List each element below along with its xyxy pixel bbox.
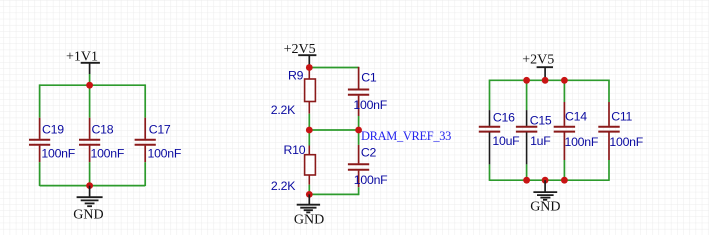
svg-text:GND: GND [294, 213, 324, 228]
junction bottom rail GND [542, 177, 549, 184]
junction top rail at C18 [86, 82, 93, 89]
ground GND right bars [533, 192, 557, 200]
svg-text:10uF: 10uF [492, 134, 520, 148]
wire bottom rail right group [490, 179, 610, 181]
power port +2V5 bar (right) [537, 66, 553, 68]
capacitor C18 [79, 118, 100, 163]
svg-text:C18: C18 [92, 123, 114, 137]
svg-text:100nF: 100nF [354, 173, 388, 187]
capacitor C2 [348, 145, 369, 187]
junction bottom rail C15 [523, 177, 530, 184]
wire C2 bottom to node3 [358, 187, 360, 195]
wire C14 bottom [563, 160, 565, 180]
svg-text:C2: C2 [361, 145, 377, 159]
wire C11 top [608, 80, 610, 103]
svg-text:100nF: 100nF [565, 135, 599, 149]
svg-text:C1: C1 [361, 71, 377, 85]
power port +2V5 bar (middle) [298, 54, 316, 56]
wire C19 bottom [39, 162, 41, 186]
ground GND left bars [77, 197, 103, 206]
svg-text:100nF: 100nF [91, 146, 125, 160]
wire C17 bottom [144, 162, 146, 186]
power port +2V5 stem (right) [544, 67, 546, 77]
svg-text:C11: C11 [611, 110, 632, 124]
wire R10 bottom to node3 [308, 185, 310, 195]
wire bottom rail left group [40, 185, 146, 187]
svg-text:GND: GND [73, 207, 103, 222]
wire top rail +2V5 [490, 79, 610, 81]
wire C15 top [526, 80, 528, 110]
ground GND middle stem [308, 194, 310, 204]
junction bottom rail C14 [561, 177, 568, 184]
svg-text:1uF: 1uF [530, 134, 551, 148]
capacitor C14 [554, 102, 575, 160]
capacitor C15 (black pins) [516, 110, 537, 164]
junction top rail power [542, 77, 549, 84]
wire C14 top [563, 80, 565, 102]
svg-text:100nF: 100nF [41, 146, 75, 160]
junction node3 [306, 191, 313, 198]
wire C1 bottom to node2 [358, 116, 360, 130]
svg-text:C16: C16 [493, 111, 515, 125]
capacitor C1 [348, 67, 369, 116]
svg-text:C17: C17 [149, 123, 171, 137]
junction node2 right [355, 127, 362, 134]
wire node2 horizontal [309, 129, 358, 131]
wire C17 top [144, 84, 146, 117]
power port +2V5 stem (middle) [308, 55, 310, 66]
wire C19 top [39, 84, 41, 117]
svg-text:C14: C14 [565, 110, 587, 124]
resistor R10 [305, 146, 316, 185]
junction top rail C14 [561, 77, 568, 84]
wire C11 bottom [608, 160, 610, 181]
svg-text:R10: R10 [284, 143, 306, 157]
svg-text:+2V5: +2V5 [522, 53, 554, 68]
wire C2 top from node2 [358, 130, 360, 145]
svg-text:2.2K: 2.2K [271, 103, 296, 117]
wire C18 bottom [89, 162, 91, 185]
wire C18 top [89, 85, 91, 118]
wire R9 bottom to node2 [308, 114, 310, 130]
power port +1V1 bar [81, 62, 100, 64]
power port +1V1 stem [89, 63, 91, 74]
svg-text:C19: C19 [42, 123, 64, 137]
junction top rail C15 [523, 77, 530, 84]
capacitor C19 [29, 118, 50, 163]
resistor R9 [305, 68, 316, 114]
ground GND middle bars [297, 205, 320, 213]
wire node1 horizontal to C1 [309, 67, 358, 69]
wire node2 to R10 [308, 130, 310, 146]
svg-text:2.2K: 2.2K [271, 179, 296, 193]
wire C15 bottom [526, 164, 528, 180]
ground GND left stem [89, 186, 91, 197]
svg-text:DRAM_VREF_33: DRAM_VREF_33 [361, 129, 451, 143]
svg-text:GND: GND [530, 199, 560, 214]
junction node2 left [306, 127, 313, 134]
wire node3 horizontal [309, 193, 358, 195]
capacitor C11 [598, 102, 619, 160]
wire top rail +1V1 [40, 84, 146, 86]
wire C16 bottom [489, 164, 491, 181]
svg-text:100nF: 100nF [609, 135, 643, 149]
wire stem to top rail (right) [544, 78, 546, 81]
capacitor C17 [135, 118, 156, 163]
svg-text:100nF: 100nF [148, 146, 182, 160]
junction bottom rail at C18/GND [86, 182, 93, 189]
ground GND right stem [544, 180, 546, 191]
wire power stem to rail [89, 74, 91, 85]
svg-text:C15: C15 [530, 113, 552, 127]
svg-text:R9: R9 [288, 68, 304, 82]
capacitor C16 (black pins) [479, 110, 500, 164]
junction node1 [306, 64, 313, 71]
wire C16 top [489, 80, 491, 111]
svg-text:100nF: 100nF [353, 98, 387, 112]
